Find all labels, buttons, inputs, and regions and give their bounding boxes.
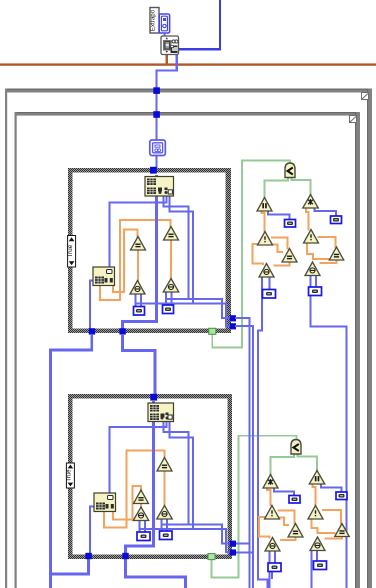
control reference terminal — [159, 14, 169, 33]
wire T2 to T4 case 1 — [170, 239, 172, 280]
wire V1 case 1 — [164, 196, 189, 299]
tunnel into case 1 top — [150, 167, 157, 174]
wire TC2 to TE2 apex — [278, 511, 295, 525]
wire TG2 to conversion — [274, 550, 276, 564]
wire V2 case 1 — [170, 196, 194, 304]
function add T3 case 1 — [130, 281, 145, 295]
wire boolean branch right group 1 — [292, 177, 311, 195]
wire TA to conversion — [268, 210, 290, 220]
comparison node less? group 2 — [291, 440, 301, 455]
wire main case1 to case2 — [123, 335, 156, 395]
function TH group 1 — [305, 262, 320, 276]
conversion to I16 left case 2 — [137, 532, 150, 541]
wire T3 stub b case 2 — [144, 520, 146, 533]
function divide T2 case 1 — [164, 227, 179, 241]
wire junction inner border — [153, 111, 160, 118]
wire main down through loop borders — [155, 91, 157, 143]
function divide T1 case 1 — [131, 237, 146, 251]
wire node to subnode case 2 — [110, 422, 167, 495]
wire subnode down to tunnel case 1 — [89, 280, 91, 331]
wire from top to property node — [178, 0, 220, 49]
wire T4 stub a — [165, 292, 167, 306]
function TG group 1 — [259, 264, 274, 278]
wire TG to conversion — [269, 276, 271, 290]
function TE2 group 2 — [288, 524, 303, 538]
case 1 selector label True — [67, 236, 76, 268]
wire TC to TG left — [253, 244, 264, 265]
conversion group 2 left — [289, 496, 300, 504]
inner loop corner glyph — [350, 116, 357, 123]
wire T4 stub a case 2 — [161, 519, 163, 532]
wire TH output long down — [311, 275, 347, 588]
conversion TG group 1 — [263, 290, 276, 299]
wire TB2 to conversion — [321, 484, 342, 494]
conversion to I16 right case 1 — [163, 305, 174, 314]
wire DBL path 1 case 2 — [104, 451, 165, 528]
tunnel case 2 bottom left — [85, 553, 91, 559]
wire subnode left stub case 2 — [90, 505, 94, 507]
wire T1 to T3 case 1 — [137, 249, 139, 282]
svg-text:Extrapo: Extrapo — [150, 9, 157, 31]
wire V2 case 2 — [170, 422, 194, 530]
wire V1 case 2 — [164, 422, 189, 525]
function add T3 case 2 — [133, 507, 149, 521]
wire TC to TE apex — [271, 238, 288, 250]
conversion TH group 1 — [309, 287, 322, 296]
wire DBL stub from node to bus — [166, 54, 168, 65]
tunnel case 1 bottom left — [89, 328, 95, 334]
wire TC to TE left — [270, 245, 283, 252]
tunnel case 2 bottom green — [208, 554, 215, 560]
case structure 2 border — [68, 394, 232, 559]
wire boolean branch right group 2 — [298, 454, 318, 472]
wire T2 to T4 case 2 — [164, 470, 166, 507]
wire TD2 to TF2 apex — [322, 510, 341, 525]
wire boolean to comparison group 2 — [212, 436, 297, 578]
wire reference to node — [163, 33, 165, 37]
wire TE2 to TG2 — [280, 537, 296, 541]
wire TB to TD — [306, 207, 309, 231]
wire case2 right tunnel b out — [235, 552, 253, 554]
tunnel into case 2 top — [150, 394, 157, 401]
conversion group 1 right — [331, 216, 342, 224]
tunnel case 1 right a — [230, 315, 236, 321]
wire W2 down right — [235, 326, 253, 588]
wire W1 down right — [235, 318, 250, 588]
wire case2 bottom left out — [51, 559, 89, 574]
tunnel case 1 bottom main — [119, 328, 125, 334]
wire TG2 conversion out — [271, 571, 273, 579]
wire main case2 exit — [126, 559, 186, 588]
wire T4 stub b case 2 — [166, 519, 168, 532]
wire TC2 to TE2 left — [277, 518, 290, 526]
wire node to subnode case 1 — [110, 196, 167, 268]
wire node output down — [157, 54, 177, 89]
tunnel case 1 bottom green — [209, 328, 216, 334]
function TH2 group 2 — [310, 537, 325, 551]
wire TA to TC — [262, 210, 265, 232]
comparison node less? group 1 — [285, 163, 295, 178]
node: property node top — [161, 36, 179, 55]
conversion TH2 group 2 — [314, 561, 327, 570]
function TE group 1 — [282, 249, 297, 263]
orange cluster bus wire — [0, 63, 376, 65]
conversion to I16 left case 1 — [134, 307, 145, 316]
case structure 1 border — [68, 168, 231, 333]
svg-text:True: True — [67, 469, 73, 482]
function add T4 case 1 — [163, 279, 179, 293]
wire DBL path 2 case 1 — [113, 230, 138, 293]
wire TD to TF left — [307, 241, 331, 259]
wire case2 right tunnel a out — [235, 543, 250, 545]
wire T3 stub a — [135, 294, 137, 307]
label Extrapo — [150, 8, 159, 34]
wire TH2 output down — [311, 550, 313, 588]
svg-text:True: True — [67, 244, 74, 257]
node: scaling subVI case 1 — [93, 267, 115, 286]
while loop (outer) border top — [5, 89, 372, 93]
wire TD to TF apex — [318, 237, 336, 248]
function TC2 group 2 — [265, 506, 280, 520]
wire rail 1 case 1 — [166, 299, 231, 318]
function add T4 case 2 — [157, 506, 173, 520]
outer loop corner glyph — [362, 93, 369, 100]
wire T3 stub b — [140, 294, 142, 307]
tunnel case 1 right b — [230, 323, 236, 329]
wire T4 stub b — [171, 292, 173, 306]
wire TH2 to conversion — [316, 550, 318, 563]
local variable icon — [150, 140, 166, 156]
function TC group 1 — [258, 232, 273, 246]
function divide T1 case 2 — [134, 490, 149, 504]
function TB2 group 2 — [309, 471, 325, 485]
wire boolean to comparison group 1 — [212, 161, 290, 348]
conversion group 1 left — [285, 220, 296, 228]
wire TG2 output down — [269, 550, 271, 588]
wire DBL path 1 case 1 — [100, 220, 171, 300]
function TF group 1 — [329, 247, 344, 260]
wire TD2 to TF2 left — [312, 517, 336, 533]
wire TA2 to conversion — [274, 487, 294, 496]
wire DBL path 2 case 2 — [113, 486, 141, 520]
node: index array case 2 — [148, 403, 174, 422]
wire TB to conversion — [315, 207, 337, 217]
function abs TA group 1 — [257, 198, 272, 212]
function mult TB group 1 — [303, 195, 319, 209]
node: scaling subVI case 2 — [94, 493, 116, 512]
function TA2 group 2 — [263, 475, 278, 489]
wire TE to TG — [274, 261, 290, 266]
wire main through case 1 — [123, 175, 157, 331]
wire rail 2 case 1 — [136, 304, 231, 327]
case 2 selector label True — [66, 463, 74, 488]
wire TC2 to TG2 left — [259, 517, 270, 539]
wire T3 stub a case 2 — [139, 520, 141, 533]
wire TH to conversion — [315, 275, 317, 288]
node: index array case 1 — [145, 177, 174, 197]
wire rail 1 case 2 — [162, 525, 232, 544]
wire main through case 2 — [126, 401, 154, 553]
while loop (inner) border top — [15, 112, 361, 116]
wire TF to TH — [320, 259, 337, 264]
conversion to I16 right case 2 — [160, 531, 173, 540]
function TG2 group 2 — [265, 538, 280, 552]
tunnel case 2 right a — [230, 541, 236, 547]
wire junction outer border — [153, 87, 160, 94]
wire boolean branch left group 1 — [265, 177, 289, 198]
wire TB2 to TD2 — [313, 484, 316, 507]
tunnel case 2 bottom main — [122, 553, 128, 559]
wire T1 to T3 case 2 — [140, 503, 142, 508]
wire TG output long down — [258, 276, 268, 588]
while loop (inner) border right — [355, 112, 360, 588]
function TD2 group 2 — [308, 506, 323, 520]
wire TF2 to TH2 — [325, 535, 343, 539]
wire TA2 to TC2 — [267, 487, 271, 506]
wire left long exit — [49, 573, 52, 588]
function divide T2 case 2 — [157, 458, 172, 472]
while loop (outer) border left — [5, 89, 7, 588]
conversion TG2 group 2 — [268, 563, 281, 572]
conversion group 2 right — [336, 492, 347, 500]
wire subnode left stub case 1 — [90, 279, 94, 281]
function TF2 group 2 — [335, 524, 350, 537]
wire boolean branch left group 2 — [271, 454, 295, 476]
while loop (outer) border right — [367, 89, 372, 588]
wire left long down — [51, 335, 92, 574]
wire to case 1 — [155, 152, 157, 170]
tunnel case 2 right b — [230, 549, 236, 555]
wire subnode down to tunnel case 2 — [89, 506, 91, 557]
while loop (inner) border left — [15, 112, 17, 588]
wire rail 2 case 2 — [139, 529, 231, 552]
function TD group 1 — [304, 230, 319, 244]
